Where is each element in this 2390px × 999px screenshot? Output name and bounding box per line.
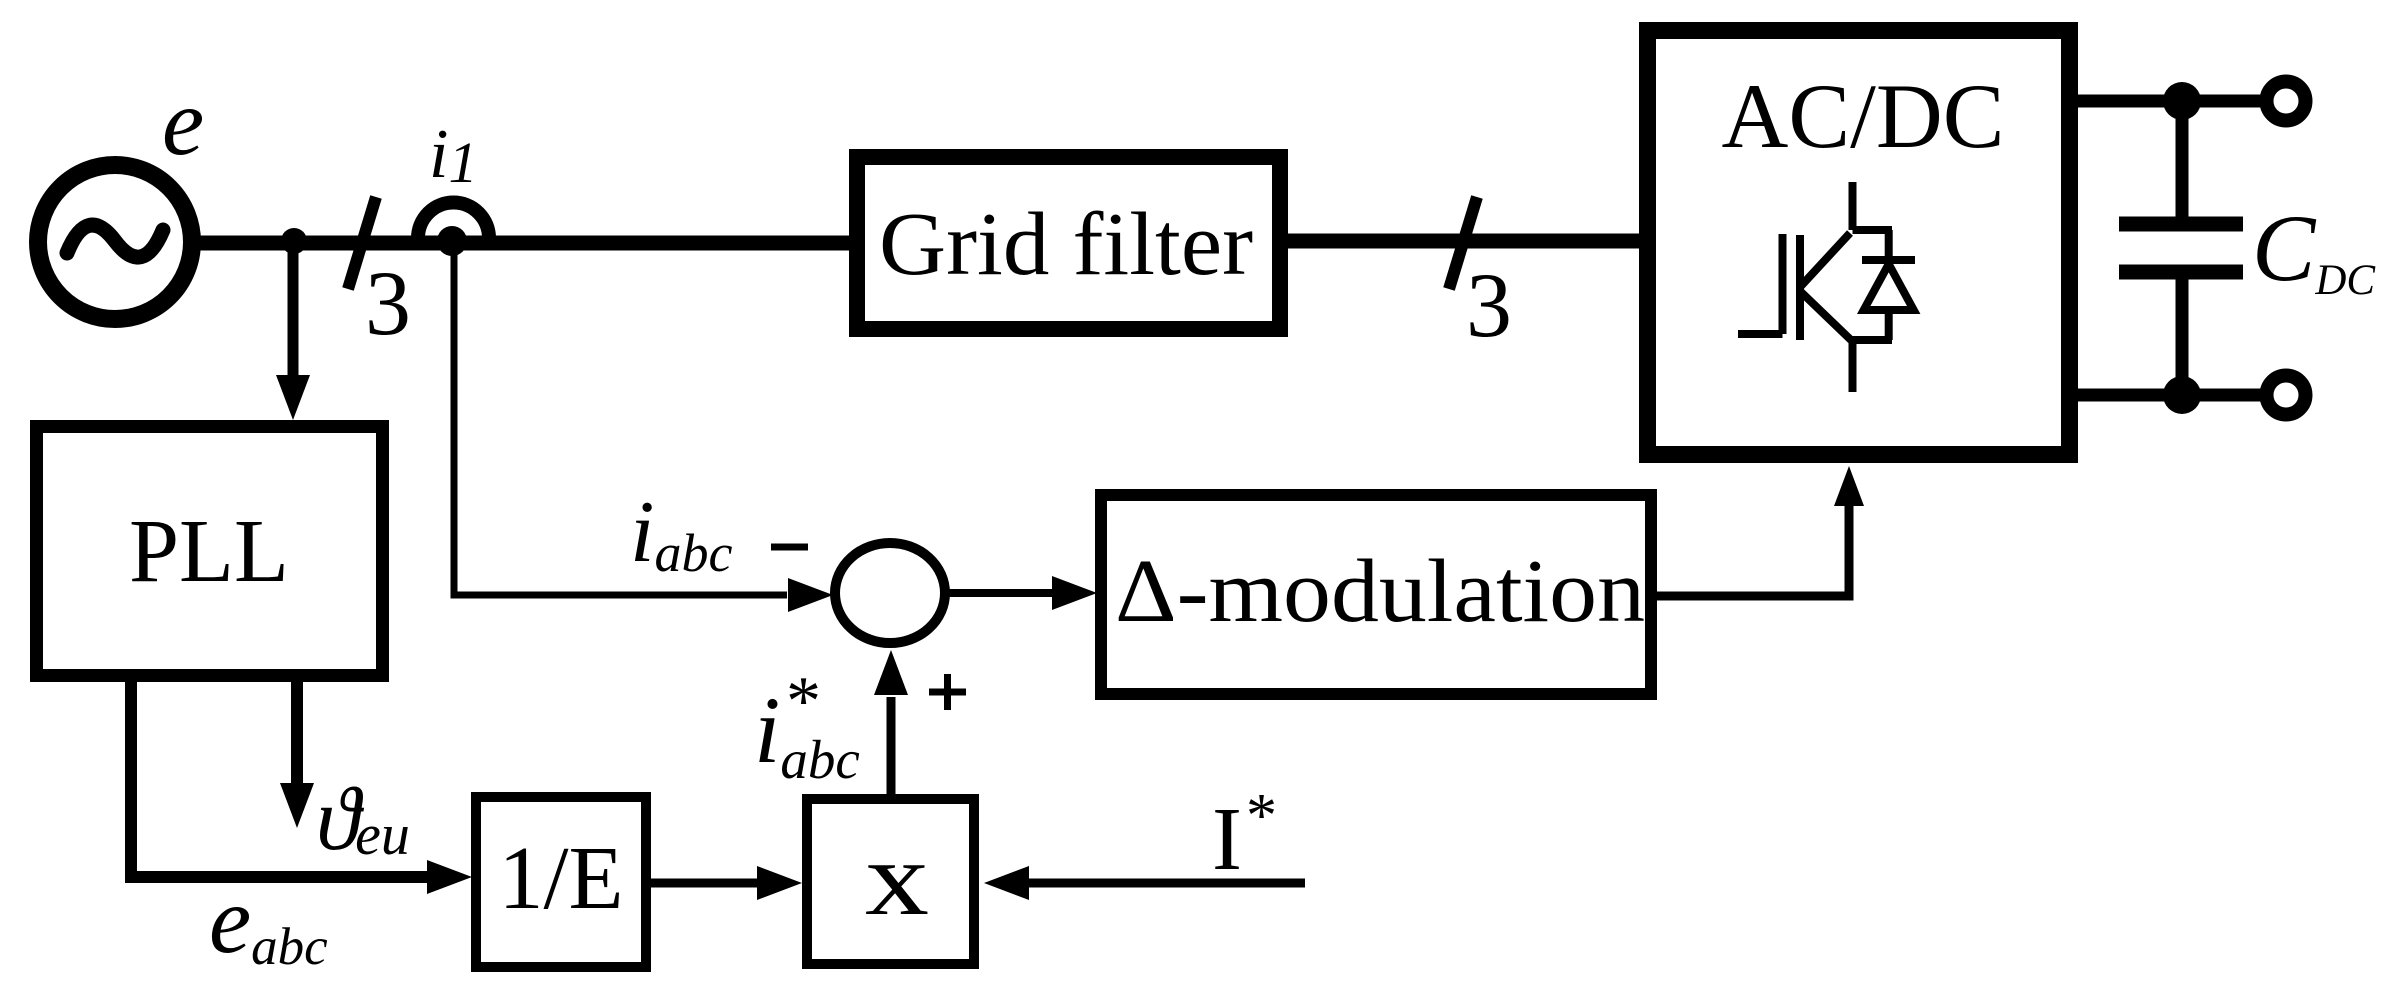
wire: PLL theta output arrow: [291, 682, 303, 784]
svg-text:1/E: 1/E: [499, 829, 624, 928]
wire: 1/E to multiplier: [651, 879, 759, 888]
current transducer i1 (arc + dot on bus): [418, 202, 489, 256]
block: AC/DC converter: [1648, 31, 2070, 455]
node: DC- junction: [2163, 376, 2201, 414]
node: DC+ junction: [2163, 82, 2201, 120]
body bar: [1796, 235, 1804, 340]
block: 1/E: [476, 797, 646, 967]
gate lead: [1738, 330, 1783, 338]
freewheel diode: cathode bar: [1862, 256, 1915, 264]
emitter lead: [1849, 340, 1857, 392]
svg-text:3: 3: [1466, 254, 1512, 356]
capacitor CDC: [2119, 101, 2243, 395]
block: multiplier x: [807, 799, 974, 964]
wire: delta-modulation output up into AC/DC: [1657, 506, 1849, 596]
svg-text:I: I: [1212, 790, 1242, 889]
svg-text:Grid filter: Grid filter: [879, 195, 1253, 294]
wire: transducer down to iabc feedback: [454, 248, 787, 595]
wire: multiplier up to summing junction: [887, 697, 896, 794]
gate bar: [1779, 234, 1787, 334]
wire: source to grid filter (3-phase bus): [191, 236, 851, 251]
diode branch bottom: [1885, 310, 1893, 340]
top connector: [1853, 226, 1893, 234]
summing junction (comparator circle): [835, 543, 945, 643]
svg-text:3: 3: [365, 252, 411, 354]
wire: PLL eabc output to 1/E: [131, 682, 428, 877]
svg-text:x: x: [865, 820, 929, 937]
ac source e (grid voltage source): [38, 165, 192, 319]
IGBT symbol inside AC/DC: [1738, 182, 1915, 392]
svg-text:*: *: [1246, 782, 1277, 850]
freewheel diode: triangle: [1864, 264, 1914, 310]
bottom connector: [1853, 336, 1893, 344]
svg-text:*: *: [786, 663, 821, 740]
diode branch top: [1885, 230, 1893, 258]
collector slant: [1801, 233, 1850, 286]
slash: 3-phase marker 1: [348, 197, 376, 289]
svg-text:PLL: PLL: [129, 502, 289, 601]
wire: I* reference into multiplier: [1027, 879, 1305, 888]
node: junction to PLL tap: [281, 228, 307, 254]
wire: DC+ rail: [2078, 95, 2286, 108]
terminal: DC+ output: [2267, 82, 2306, 121]
svg-text:e: e: [162, 69, 204, 175]
svg-text:AC/DC: AC/DC: [1722, 65, 2005, 167]
svg-text:Δ-modulation: Δ-modulation: [1115, 542, 1645, 641]
label plus sign at summing node: [929, 689, 966, 696]
slash: 3-phase marker 2: [1449, 197, 1477, 289]
wire: DC- rail: [2078, 389, 2286, 402]
collector lead: [1849, 182, 1857, 230]
terminal: DC- output: [2267, 376, 2306, 415]
block: PLL: [37, 427, 383, 676]
wire: grid filter to AC/DC: [1286, 234, 1641, 249]
wire: summing junction to delta-modulation: [944, 589, 1054, 597]
block: delta-modulation: [1101, 495, 1651, 694]
wire: arrow down from bus to PLL: [288, 246, 299, 378]
emitter slant: [1801, 292, 1852, 341]
label minus sign at summing node: [771, 544, 808, 551]
block: Grid filter: [857, 157, 1280, 329]
